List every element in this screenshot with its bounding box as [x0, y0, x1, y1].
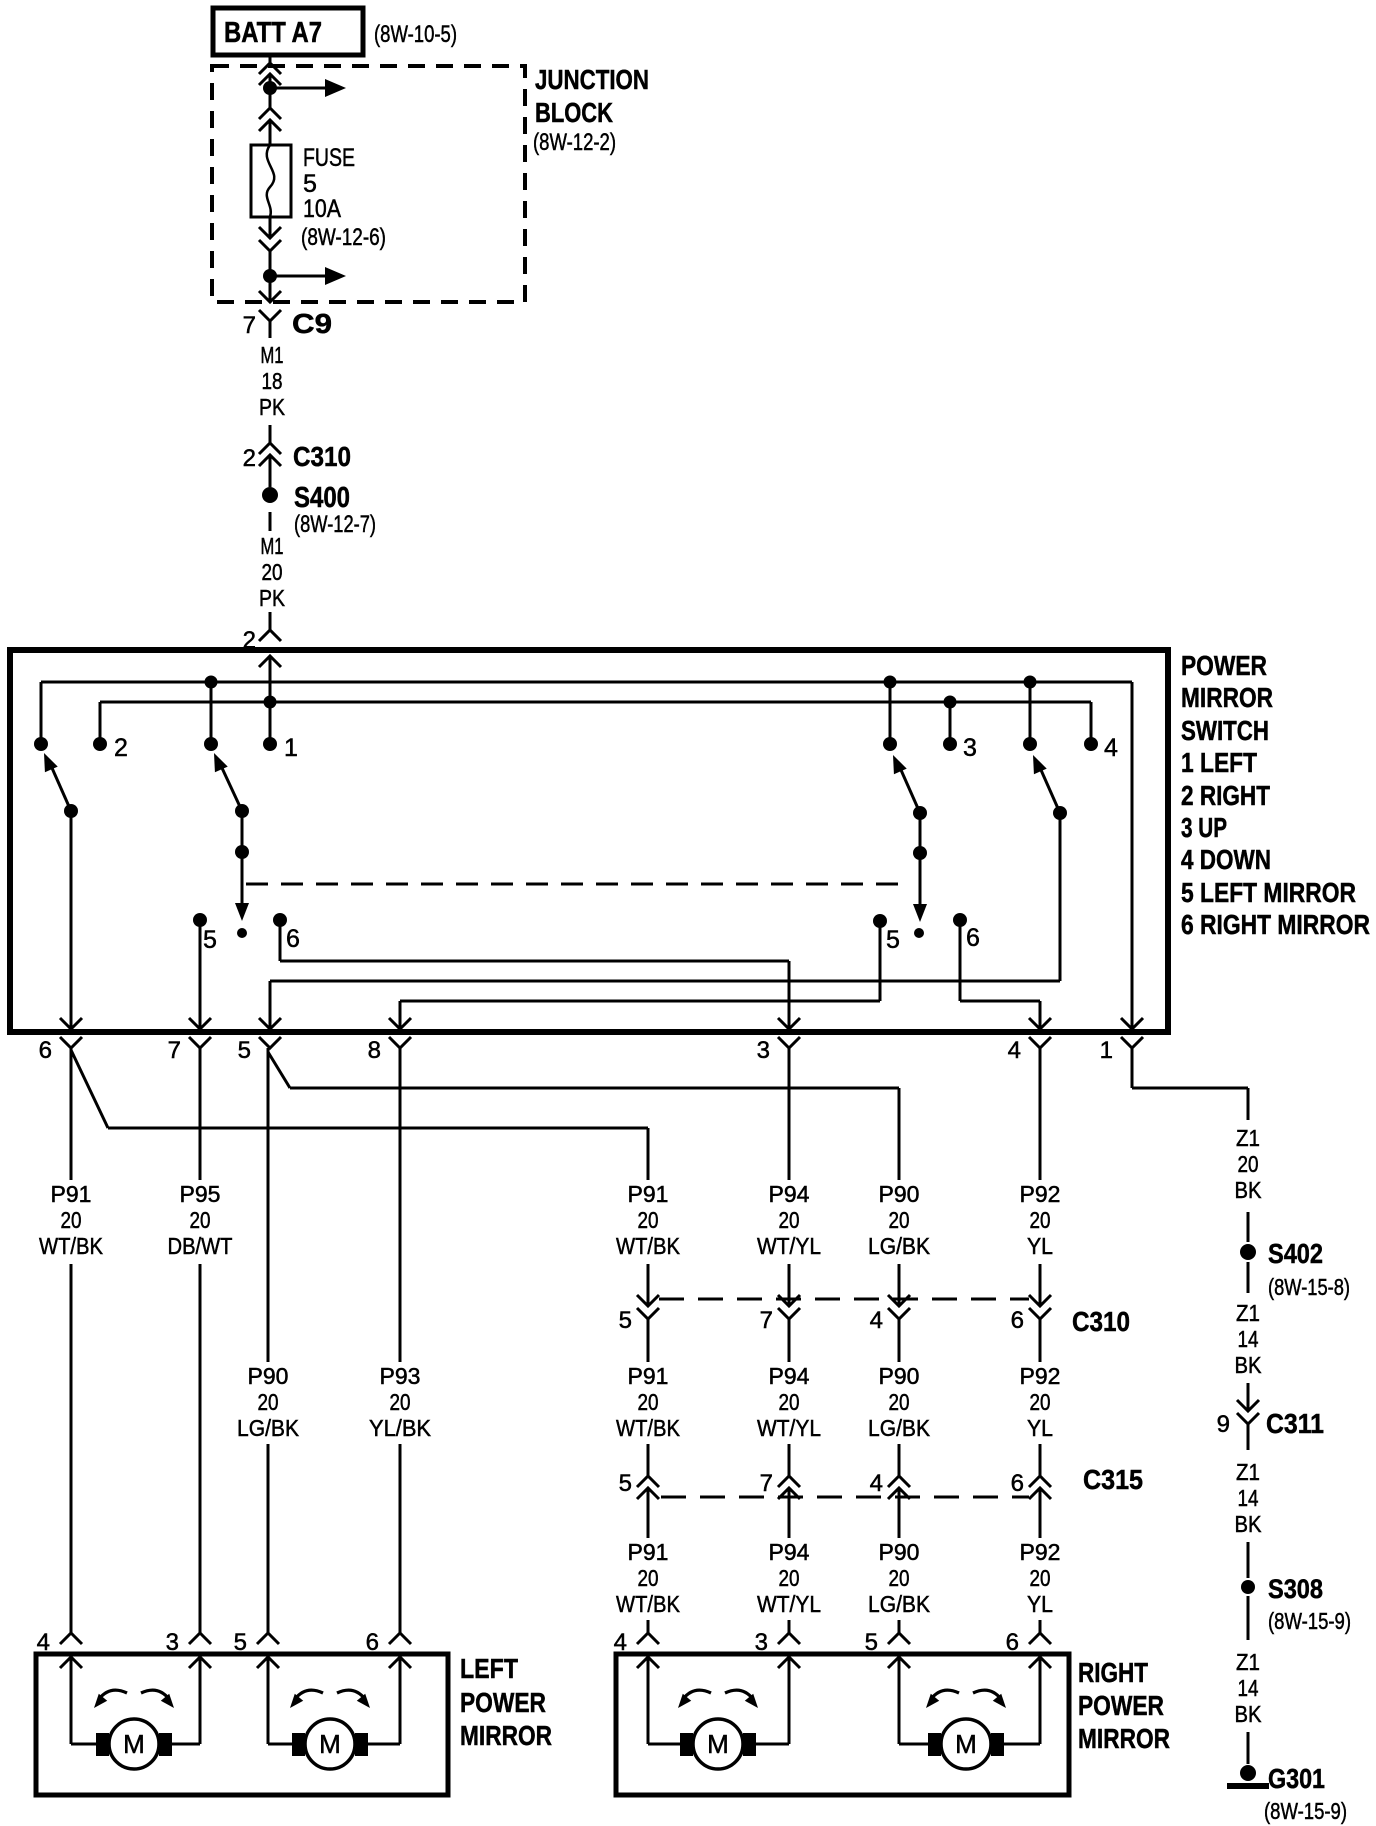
svg-text:6: 6 — [286, 925, 300, 953]
switch arm right-2 — [1027, 752, 1067, 820]
svg-text:20: 20 — [1238, 1151, 1259, 1177]
wire to C315 column x648 — [647, 1444, 650, 1476]
svg-text:P90: P90 — [879, 1539, 920, 1565]
connector C311 pin 9 — [1217, 1400, 1324, 1450]
svg-text:M: M — [319, 1729, 341, 1759]
left mirror pin 5 — [234, 1629, 279, 1668]
svg-text:POWER: POWER — [460, 1687, 546, 1718]
connector C310 pin 5 — [619, 1295, 659, 1362]
wire pin 4 down (P92 column upper) — [1039, 1048, 1042, 1306]
wire PK to switch pin 2 — [269, 612, 272, 632]
svg-text:S308: S308 — [1268, 1574, 1323, 1604]
left mirror motor M2 — [292, 1719, 368, 1769]
svg-text:M: M — [707, 1729, 729, 1759]
left mirror motor 1 wires — [71, 1658, 200, 1744]
svg-text:14: 14 — [1238, 1485, 1259, 1511]
svg-text:6: 6 — [1011, 1470, 1024, 1497]
wire label P91 20 WT/BK (right upper) — [616, 1181, 681, 1259]
svg-text:WT/YL: WT/YL — [757, 1233, 821, 1259]
switch bottom pin 5 connector — [238, 1018, 281, 1064]
svg-text:1: 1 — [284, 734, 298, 762]
wire to C315 column x1040 — [1039, 1444, 1042, 1476]
switch bottom pin 3 connector — [757, 1018, 800, 1064]
svg-text:SWITCH: SWITCH — [1181, 715, 1269, 746]
svg-text:WT/YL: WT/YL — [757, 1415, 821, 1441]
wire pin 7 down (P95 column) — [199, 1048, 202, 1635]
left mirror motor M1 — [96, 1719, 172, 1769]
contact A3 — [204, 737, 218, 751]
right mirror pin 5 — [865, 1629, 910, 1668]
wire label Z1 14 BK (lower) — [1235, 1649, 1263, 1727]
junction node with feed arrow — [263, 79, 346, 97]
right mirror pin 3 — [755, 1629, 800, 1668]
node W1 at contact B1 — [884, 676, 897, 689]
svg-text:(8W-12-6): (8W-12-6) — [301, 224, 386, 251]
wire pin 1 to ground column — [1132, 1048, 1248, 1120]
svg-text:7: 7 — [760, 1470, 773, 1497]
wire label M1 18 PK — [259, 342, 286, 420]
svg-text:14: 14 — [1238, 1675, 1259, 1701]
mechanical link dashed line — [246, 883, 902, 886]
svg-text:P91: P91 — [51, 1181, 92, 1207]
wire to right mirror column x1040 — [1039, 1620, 1042, 1633]
svg-text:20: 20 — [638, 1207, 659, 1233]
svg-text:P94: P94 — [769, 1181, 810, 1207]
svg-text:C9: C9 — [292, 308, 332, 339]
connector at junction block boundary — [259, 63, 281, 85]
contact A1 — [34, 737, 48, 751]
svg-text:C311: C311 — [1266, 1408, 1324, 1439]
in-line connector below fuse — [259, 227, 281, 251]
splice S400 — [262, 482, 376, 538]
wire to right mirror column x789 — [788, 1620, 791, 1633]
contact B3 — [1023, 737, 1037, 751]
svg-text:WT/BK: WT/BK — [616, 1415, 681, 1441]
wire W1 to contact B3 — [1029, 682, 1032, 744]
svg-text:P94: P94 — [769, 1363, 810, 1389]
wire W1 to contact B1 — [889, 682, 892, 744]
wire pin 5 down (P90 left column) — [267, 1048, 270, 1635]
svg-text:5: 5 — [619, 1470, 632, 1497]
svg-text:20: 20 — [1030, 1207, 1051, 1233]
left power mirror box — [36, 1654, 448, 1795]
svg-text:2: 2 — [243, 445, 256, 472]
contact 4 — [1084, 734, 1118, 762]
svg-text:5: 5 — [238, 1037, 251, 1064]
svg-text:M1: M1 — [261, 342, 284, 368]
node W2 feed junction — [264, 696, 277, 709]
wire C310 to splice — [269, 455, 272, 487]
connector C315 pin 6 — [1011, 1470, 1051, 1538]
switch arm right-1 travel arrow — [913, 853, 927, 938]
svg-text:P91: P91 — [628, 1181, 669, 1207]
svg-text:Z1: Z1 — [1236, 1125, 1260, 1151]
wire below fuse — [269, 217, 272, 238]
right mirror motor M3 — [680, 1719, 756, 1769]
svg-text:7: 7 — [243, 312, 256, 339]
connector C310 dashed gang line — [659, 1298, 1029, 1301]
svg-text:P91: P91 — [628, 1539, 669, 1565]
svg-text:FUSE: FUSE — [303, 144, 355, 172]
svg-text:C315: C315 — [1083, 1464, 1143, 1495]
wire label Z1 20 BK — [1235, 1125, 1263, 1203]
wire label P90 20 LG/BK (mid) — [868, 1363, 931, 1441]
wire W2 right end down to contact 4 — [1090, 702, 1093, 744]
wire label P93 20 YL/BK — [369, 1363, 432, 1441]
contact 5 left — [193, 913, 217, 954]
svg-text:1: 1 — [1100, 1037, 1113, 1064]
wire label P90 20 LG/BK (upper) — [868, 1181, 931, 1259]
svg-text:6: 6 — [1011, 1307, 1024, 1334]
svg-text:P90: P90 — [248, 1363, 289, 1389]
svg-text:1 LEFT: 1 LEFT — [1181, 747, 1257, 778]
svg-text:G301: G301 — [1268, 1763, 1325, 1794]
svg-text:M: M — [123, 1729, 145, 1759]
svg-text:P90: P90 — [879, 1181, 920, 1207]
wire label P91 20 WT/BK (left) — [39, 1181, 104, 1259]
connector C315 pin 7 — [760, 1470, 800, 1538]
wire contact6-left to pin 3 — [280, 920, 789, 1029]
svg-text:MIRROR: MIRROR — [460, 1720, 552, 1751]
svg-text:20: 20 — [262, 559, 283, 585]
svg-text:6: 6 — [1006, 1629, 1019, 1656]
svg-text:5: 5 — [303, 170, 317, 198]
connector C9 pin 7 — [243, 291, 332, 339]
wire W2 left end down to contact 2 — [99, 702, 102, 744]
svg-text:4: 4 — [1104, 734, 1118, 762]
wire W1 left end down to contact A1 — [40, 682, 43, 744]
svg-text:10A: 10A — [303, 195, 341, 223]
left mirror pin 3 — [166, 1629, 211, 1668]
switch arm left-2 — [208, 750, 249, 818]
wire label P94 20 WT/YL (lower) — [757, 1539, 821, 1617]
wire label P91 20 WT/BK (right mid) — [616, 1363, 681, 1441]
contact 5 right — [873, 914, 900, 954]
bus W1 right end to pin 1 — [1131, 682, 1134, 1029]
svg-text:20: 20 — [258, 1389, 279, 1415]
label JUNCTION BLOCK — [533, 64, 649, 156]
dashed wire below S400 — [269, 512, 272, 531]
svg-text:LEFT: LEFT — [460, 1653, 518, 1684]
switch arm left-2 lower pivot — [235, 811, 249, 859]
node W2 at contact B2 — [944, 696, 957, 709]
svg-text:BLOCK: BLOCK — [535, 97, 613, 128]
right mirror motor 2 wires — [899, 1658, 1040, 1744]
connector C315 pin 4 — [870, 1470, 910, 1538]
svg-text:20: 20 — [889, 1565, 910, 1591]
svg-text:2 RIGHT: 2 RIGHT — [1181, 780, 1270, 811]
wire to right mirror column x648 — [647, 1620, 650, 1633]
svg-text:14: 14 — [1238, 1326, 1259, 1352]
svg-text:20: 20 — [638, 1565, 659, 1591]
svg-text:S400: S400 — [294, 482, 350, 514]
svg-text:5: 5 — [865, 1629, 878, 1656]
svg-text:6: 6 — [966, 924, 980, 952]
svg-text:C310: C310 — [1072, 1306, 1130, 1337]
battery feed box BATT A7 — [213, 8, 363, 55]
svg-text:(8W-12-2): (8W-12-2) — [533, 129, 616, 156]
svg-text:20: 20 — [390, 1389, 411, 1415]
fuse 5 10A — [251, 145, 291, 217]
svg-text:5: 5 — [886, 926, 900, 954]
svg-text:LG/BK: LG/BK — [868, 1415, 931, 1441]
svg-text:BK: BK — [1235, 1701, 1263, 1727]
svg-text:20: 20 — [638, 1389, 659, 1415]
svg-text:BATT A7: BATT A7 — [224, 17, 322, 49]
motor M1 rotation arrows — [90, 1690, 178, 1711]
svg-text:RIGHT: RIGHT — [1078, 1657, 1148, 1688]
svg-text:2: 2 — [114, 734, 128, 762]
wire below S308 — [1247, 1596, 1250, 1640]
switch arm right-1 lower pivot — [913, 813, 927, 860]
wire below S402 — [1247, 1262, 1250, 1293]
switch bottom pin 7 connector — [168, 1018, 211, 1064]
connector C310 pin 7 — [760, 1295, 800, 1362]
left mirror pin 6 — [366, 1629, 411, 1668]
svg-text:4: 4 — [614, 1629, 627, 1656]
svg-text:6 RIGHT MIRROR: 6 RIGHT MIRROR — [1181, 909, 1370, 940]
wire label P92 20 YL (lower) — [1020, 1539, 1061, 1617]
switch arm left-2 travel arrow — [235, 852, 249, 938]
svg-text:S402: S402 — [1268, 1238, 1323, 1269]
svg-text:20: 20 — [61, 1207, 82, 1233]
switch arm left-1 wire to pin 6 — [70, 811, 73, 1029]
svg-text:(8W-15-9): (8W-15-9) — [1264, 1798, 1347, 1824]
svg-text:YL: YL — [1027, 1415, 1053, 1441]
wire to C315 column x789 — [788, 1444, 791, 1476]
switch arm right-1 — [887, 752, 927, 820]
wire pin 8 down (P93 column) — [399, 1048, 402, 1635]
wire into junction block — [269, 76, 272, 88]
junction block dashed box — [212, 66, 525, 302]
svg-text:20: 20 — [190, 1207, 211, 1233]
svg-text:P91: P91 — [628, 1363, 669, 1389]
svg-text:MIRROR: MIRROR — [1181, 682, 1273, 713]
wire to connector C311 — [1247, 1383, 1250, 1411]
svg-text:20: 20 — [779, 1389, 800, 1415]
wire label M1 20 PK — [259, 533, 286, 611]
svg-text:M1: M1 — [261, 533, 284, 559]
svg-text:8: 8 — [368, 1037, 381, 1064]
wire to splice S308 — [1247, 1542, 1250, 1578]
contact 6 left — [273, 913, 300, 953]
svg-text:MIRROR: MIRROR — [1078, 1723, 1170, 1754]
svg-text:5: 5 — [619, 1307, 632, 1334]
svg-text:4: 4 — [870, 1470, 883, 1497]
splice S308 — [1241, 1574, 1351, 1634]
motor M2 rotation arrows — [286, 1690, 374, 1711]
wire label P94 20 WT/YL (upper) — [757, 1181, 821, 1259]
connector C315 dashed gang line — [661, 1496, 1029, 1499]
svg-text:9: 9 — [1217, 1411, 1230, 1438]
svg-text:3: 3 — [755, 1629, 768, 1656]
svg-text:C310: C310 — [293, 441, 351, 472]
wire to ground G301 — [1247, 1732, 1250, 1764]
wire to junction block exit — [269, 282, 272, 302]
svg-text:5 LEFT MIRROR: 5 LEFT MIRROR — [1181, 877, 1356, 908]
wire BATT A7 to junction block — [269, 55, 272, 63]
wire contact5-right to pin 8 — [400, 921, 880, 1029]
contact B1 — [883, 737, 897, 751]
right mirror motor M4 — [928, 1719, 1004, 1769]
svg-text:P90: P90 — [879, 1363, 920, 1389]
svg-text:M: M — [955, 1729, 977, 1759]
contact 6 right — [953, 913, 980, 952]
wire label Z1 14 BK (mid) — [1235, 1459, 1263, 1537]
svg-text:BK: BK — [1235, 1177, 1263, 1203]
switch bottom pin 6 connector — [39, 1018, 82, 1064]
svg-text:P92: P92 — [1020, 1539, 1061, 1565]
motor M3 rotation arrows — [674, 1690, 762, 1711]
svg-text:P93: P93 — [380, 1363, 421, 1389]
svg-text:WT/BK: WT/BK — [616, 1233, 681, 1259]
svg-text:Z1: Z1 — [1236, 1459, 1260, 1485]
svg-text:PK: PK — [259, 394, 286, 420]
svg-text:20: 20 — [779, 1565, 800, 1591]
svg-text:P92: P92 — [1020, 1181, 1061, 1207]
svg-text:4: 4 — [870, 1307, 883, 1334]
wire PK to C310 — [269, 425, 272, 443]
svg-text:20: 20 — [1030, 1389, 1051, 1415]
svg-text:18: 18 — [262, 368, 283, 394]
bus wire W1 upper — [41, 681, 1132, 684]
svg-text:5: 5 — [234, 1629, 247, 1656]
label C310 — [1072, 1306, 1130, 1337]
power mirror switch box — [10, 650, 1168, 1032]
svg-text:20: 20 — [889, 1389, 910, 1415]
svg-text:4: 4 — [37, 1629, 50, 1656]
junction node with feed arrow lower — [263, 267, 346, 285]
svg-text:BK: BK — [1235, 1352, 1263, 1378]
svg-text:JUNCTION: JUNCTION — [535, 64, 649, 95]
svg-text:POWER: POWER — [1078, 1690, 1164, 1721]
reference (8W-10-5) — [374, 21, 457, 48]
svg-text:WT/BK: WT/BK — [616, 1591, 681, 1617]
ground G301 — [1227, 1763, 1347, 1824]
wire to right mirror column x899 — [898, 1620, 901, 1633]
svg-text:(8W-12-7): (8W-12-7) — [294, 511, 376, 538]
svg-text:20: 20 — [1030, 1565, 1051, 1591]
contact 2 — [93, 734, 128, 762]
switch bottom pin 8 connector — [368, 1018, 411, 1064]
node W1 at contact A3 — [205, 676, 218, 689]
svg-text:3: 3 — [166, 1629, 179, 1656]
svg-text:LG/BK: LG/BK — [237, 1415, 300, 1441]
svg-text:Z1: Z1 — [1236, 1649, 1260, 1675]
connector C310 pin 4 — [870, 1295, 910, 1362]
in-line connector above fuse — [259, 108, 281, 131]
svg-text:(8W-15-8): (8W-15-8) — [1268, 1274, 1350, 1300]
feed wire into switch (pin 2 to contact 1) — [269, 657, 272, 744]
contact 3 — [943, 734, 977, 762]
svg-text:YL/BK: YL/BK — [369, 1415, 432, 1441]
svg-text:6: 6 — [366, 1629, 379, 1656]
svg-text:POWER: POWER — [1181, 650, 1267, 681]
wire label P94 20 WT/YL (mid) — [757, 1363, 821, 1441]
svg-text:5: 5 — [203, 926, 217, 954]
svg-text:3: 3 — [757, 1037, 770, 1064]
right mirror pin 4 — [614, 1629, 659, 1668]
switch arm right-2 wire to pin 5 — [270, 813, 1060, 1029]
wire label P91 20 WT/BK (right lower) — [616, 1539, 681, 1617]
label POWER MIRROR SWITCH legend — [1181, 650, 1370, 940]
svg-text:P95: P95 — [180, 1181, 221, 1207]
wire W1 to contact A3 — [210, 682, 213, 744]
fuse labels FUSE 5 10A (8W-12-6) — [301, 144, 386, 251]
connector C310 pin 2 — [243, 441, 351, 472]
svg-text:WT/BK: WT/BK — [39, 1233, 104, 1259]
svg-text:(8W-10-5): (8W-10-5) — [374, 21, 457, 48]
contact 1 — [263, 734, 298, 762]
wire right P90 column upper — [898, 1088, 901, 1306]
wire label P92 20 YL (mid) — [1020, 1363, 1061, 1441]
node W1 at contact B3 — [1024, 676, 1037, 689]
switch top pin 2 connector — [243, 627, 281, 667]
wire pin 3 down (P94 column upper) — [788, 1048, 791, 1306]
wire label P90 20 LG/BK (lower) — [868, 1539, 931, 1617]
svg-text:YL: YL — [1027, 1591, 1053, 1617]
svg-text:P94: P94 — [769, 1539, 810, 1565]
wire label Z1 14 BK (upper) — [1235, 1300, 1263, 1378]
motor M4 rotation arrows — [922, 1690, 1010, 1711]
svg-text:PK: PK — [259, 585, 286, 611]
wire to lower junction node — [269, 251, 272, 270]
svg-text:7: 7 — [168, 1037, 181, 1064]
wire contact5-left to pin 7 — [199, 920, 202, 1029]
svg-text:3 UP: 3 UP — [1181, 812, 1227, 843]
svg-text:BK: BK — [1235, 1511, 1263, 1537]
connector C310 pin 6 — [1011, 1295, 1051, 1362]
connector C315 pin 5 — [619, 1470, 659, 1538]
bus wire W2 lower — [100, 701, 1091, 704]
wire contact6-right to pin 4 — [960, 920, 1040, 1029]
wire right P91 column upper — [647, 1128, 650, 1306]
wire pin 5 branch diagonal to right P90 column — [268, 1052, 899, 1088]
svg-text:20: 20 — [889, 1207, 910, 1233]
wire label P92 20 YL (upper) — [1020, 1181, 1061, 1259]
left mirror pin 4 — [37, 1629, 82, 1668]
svg-text:4 DOWN: 4 DOWN — [1181, 844, 1271, 875]
wire W2 to contact 3 — [949, 702, 952, 744]
right mirror motor 1 wires — [648, 1658, 789, 1744]
label LEFT POWER MIRROR — [460, 1653, 552, 1751]
svg-text:20: 20 — [779, 1207, 800, 1233]
switch bottom pin 4 connector — [1008, 1018, 1051, 1064]
splice S402 — [1240, 1238, 1350, 1300]
svg-text:Z1: Z1 — [1236, 1300, 1260, 1326]
wire to fuse — [269, 120, 272, 145]
svg-text:(8W-15-9): (8W-15-9) — [1268, 1608, 1351, 1634]
wire pin 6 branch diagonal to right P91 column — [71, 1050, 648, 1128]
right mirror pin 6 — [1006, 1629, 1051, 1668]
svg-text:4: 4 — [1008, 1037, 1021, 1064]
svg-text:6: 6 — [39, 1037, 52, 1064]
wire label P95 20 DB/WT — [168, 1181, 233, 1259]
svg-text:7: 7 — [760, 1307, 773, 1334]
wire to splice S402 — [1247, 1212, 1250, 1242]
wire pin 6 down (P91 left column) — [70, 1048, 73, 1635]
wire node to fuse connector — [269, 94, 272, 108]
svg-text:3: 3 — [963, 734, 977, 762]
svg-text:DB/WT: DB/WT — [168, 1233, 233, 1259]
label RIGHT POWER MIRROR — [1078, 1657, 1170, 1754]
svg-text:LG/BK: LG/BK — [868, 1233, 931, 1259]
label C315 — [1083, 1464, 1143, 1495]
svg-text:YL: YL — [1027, 1233, 1053, 1259]
right power mirror box — [616, 1654, 1069, 1795]
svg-text:WT/YL: WT/YL — [757, 1591, 821, 1617]
svg-text:P92: P92 — [1020, 1363, 1061, 1389]
